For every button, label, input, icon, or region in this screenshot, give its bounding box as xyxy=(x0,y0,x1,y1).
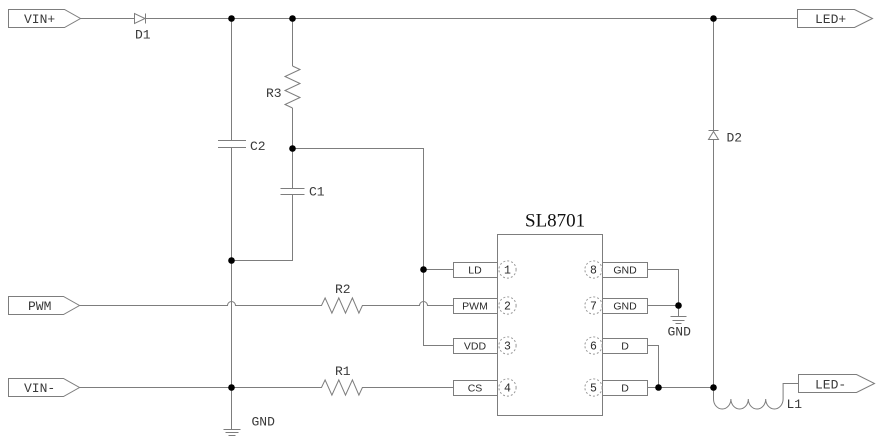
svg-text:R3: R3 xyxy=(266,86,282,101)
svg-text:1: 1 xyxy=(504,265,511,278)
svg-text:LED+: LED+ xyxy=(815,12,846,27)
svg-text:7: 7 xyxy=(590,301,597,314)
svg-text:C2: C2 xyxy=(250,139,266,154)
svg-text:GND: GND xyxy=(613,265,637,277)
svg-text:R2: R2 xyxy=(335,282,351,297)
svg-text:D1: D1 xyxy=(135,28,151,43)
svg-text:GND: GND xyxy=(668,325,692,340)
svg-text:GND: GND xyxy=(252,415,276,430)
svg-text:L1: L1 xyxy=(787,397,803,412)
svg-text:LD: LD xyxy=(468,265,482,277)
svg-text:2: 2 xyxy=(504,301,511,314)
svg-text:3: 3 xyxy=(504,341,511,354)
svg-text:VIN-: VIN- xyxy=(24,381,55,396)
svg-text:VIN+: VIN+ xyxy=(24,12,55,27)
svg-text:GND: GND xyxy=(613,301,637,313)
svg-text:VDD: VDD xyxy=(464,341,487,353)
svg-text:5: 5 xyxy=(590,383,597,396)
svg-text:D: D xyxy=(621,383,629,395)
svg-text:SL8701: SL8701 xyxy=(525,211,585,232)
svg-text:6: 6 xyxy=(590,341,597,354)
svg-text:PWM: PWM xyxy=(28,299,51,314)
svg-text:R1: R1 xyxy=(335,364,351,379)
svg-text:D: D xyxy=(621,341,629,353)
svg-text:4: 4 xyxy=(504,383,511,396)
svg-text:8: 8 xyxy=(590,265,597,278)
svg-text:D2: D2 xyxy=(727,131,743,146)
svg-text:LED-: LED- xyxy=(815,378,846,393)
svg-text:CS: CS xyxy=(468,383,483,395)
svg-text:PWM: PWM xyxy=(462,301,488,313)
svg-text:C1: C1 xyxy=(309,185,325,200)
